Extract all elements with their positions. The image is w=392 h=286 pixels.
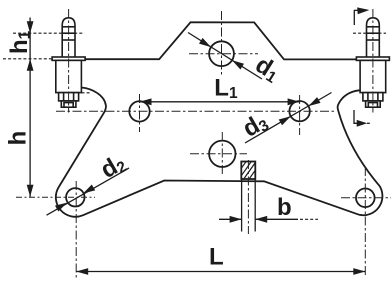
bottom-left hole (d2 hole) [66,188,84,206]
plate outline: top edge with raised trapezoid peak [52,22,356,59]
top hole (d1 hole) [209,41,234,66]
centre hole [209,141,235,167]
left stud: lower step [61,101,76,107]
dimension h1/h vertical line at left [29,18,31,198]
centre hole vertical centerline [221,132,223,176]
horizontal centerline through middle holes [56,110,336,112]
svg-text:b: b [277,194,292,221]
right stud: hex nut [363,93,383,101]
marking mark top-right: bent leader with arrow [354,10,365,25]
left stud: shank with domed tip [62,18,75,57]
centre hole horizontal centerline [190,153,247,155]
plate outline: left cutout curve, left leg, left lobe arc, bottom edge to centre vertex [56,88,383,217]
left middle hole vertical centerline [139,94,141,132]
right stud: flange washer [356,57,389,60]
bottom-left hole horizontal centerline / h extension [16,196,95,198]
rib vertical centerline [247,160,249,234]
right stud: thread lines across shank [367,32,380,34]
svg-text:h: h [5,131,32,146]
marking mark right-middle: bent leader with arrow [354,110,364,123]
bottom-right hole horizontal centerline [341,197,391,199]
dimension L1 line [140,101,300,103]
thread level dashes across right stud [353,32,386,34]
left stud: hex nut [59,93,79,101]
top hole vertical centerline [221,11,223,76]
dimension L line [76,271,365,273]
left stud: thread lines across shank [62,32,75,34]
h bottom arrow [27,185,34,197]
diameter leader d3 for right middle hole [245,93,332,144]
left stud: flange washer [52,57,85,60]
right middle hole (d3 hole) [289,101,309,121]
bottom-right hole vertical centerline / L extension [364,167,366,278]
left stud: dome base line [62,26,75,28]
rib cross-section square with hatching [241,162,255,180]
svg-text:L: L [209,244,224,271]
right stud: dome base line [367,26,380,28]
left middle hole [129,101,149,121]
left stud: centerline [68,9,70,113]
top hole horizontal centerline [189,53,258,55]
bottom-left hole vertical centerline / L extension [75,181,77,278]
diameter leader d1 for top hole [188,33,262,80]
right stud: centerline [372,9,374,113]
right stud: lower step [366,101,381,107]
right middle hole vertical centerline [299,95,301,135]
left stud: body below flange [56,60,82,92]
right stud: body below flange [360,60,386,92]
diameter leader d2 for bottom-left hole [47,168,130,215]
h1 top extension line [13,32,85,34]
right stud: shank with domed tip [367,18,380,57]
h1 bottom / h top extension line [3,58,53,60]
bottom-right hole [356,189,375,208]
dimension b extension lines [241,178,243,232]
left stud body bottom dash [82,92,91,94]
h1 arrows (outside pointing in) [27,21,34,33]
dimension b line with outside arrows [219,218,242,220]
